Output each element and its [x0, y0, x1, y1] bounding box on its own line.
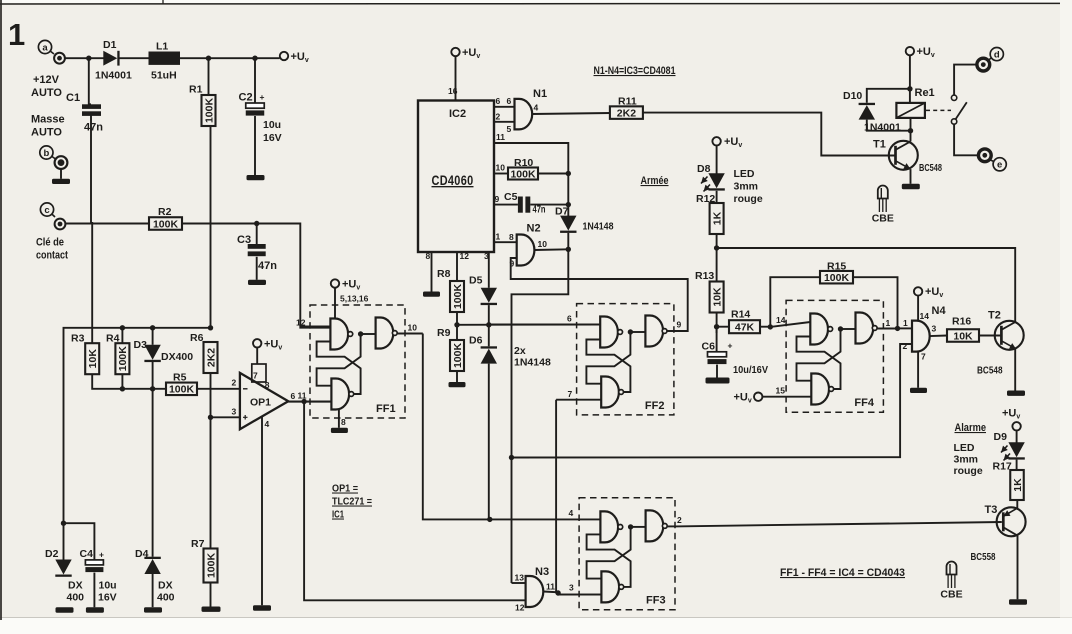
- svg-text:a: a: [42, 42, 48, 53]
- resistor R8: [450, 281, 464, 312]
- svg-text:3: 3: [484, 251, 489, 261]
- wire FF2 pin7 column: [555, 400, 557, 594]
- label pin 6 (N1): [507, 96, 512, 106]
- wire C6 top lead: [716, 327, 718, 352]
- svg-text:N4: N4: [932, 305, 947, 317]
- label pin 8 (N2): [509, 232, 514, 242]
- svg-text:D5: D5: [469, 275, 483, 287]
- diode D3: [144, 345, 160, 362]
- svg-text:10: 10: [496, 163, 506, 173]
- FF1 label: [376, 403, 396, 415]
- svg-text:14: 14: [920, 311, 930, 321]
- svg-text:N1-N4=IC3=CD4081: N1-N4=IC3=CD4081: [594, 65, 676, 77]
- wire R9 ground lead: [456, 371, 458, 382]
- label R13: [695, 270, 714, 282]
- connector b tag: [40, 146, 56, 159]
- svg-text:R11: R11: [618, 96, 637, 108]
- svg-text:D7: D7: [555, 206, 569, 218]
- svg-text:10: 10: [538, 239, 548, 249]
- junction C3 tap: [254, 221, 259, 226]
- label 16V (C2): [263, 132, 282, 144]
- capacitor C6: [708, 352, 727, 364]
- svg-text:R4: R4: [106, 333, 120, 345]
- label BC548 (T1): [919, 162, 942, 174]
- svg-text:1: 1: [886, 318, 891, 328]
- svg-text:2: 2: [903, 341, 908, 351]
- svg-text:10K: 10K: [711, 287, 723, 307]
- label pin 11 (N3): [546, 582, 555, 592]
- label R17: [993, 461, 1012, 473]
- junction D5-D6 node: [486, 322, 491, 327]
- FF4 internal junction: [838, 326, 843, 331]
- label Armee: [641, 175, 669, 187]
- label C6: [702, 341, 716, 353]
- label pin 6 (IC2): [496, 96, 501, 106]
- FF1 lower NAND gate: [331, 379, 353, 410]
- wire IC2 pin2 to N1: [494, 121, 515, 123]
- junction FF4out-N4: [895, 326, 900, 331]
- svg-text:C4: C4: [80, 548, 94, 560]
- junction armee node: [714, 245, 719, 250]
- junction N2out-D7: [566, 247, 571, 252]
- wire C4 branch: [64, 523, 95, 607]
- junction R4 top: [120, 325, 125, 330]
- svg-text:3mm: 3mm: [734, 181, 759, 193]
- svg-text:1: 1: [8, 17, 25, 52]
- OP1 pins 7-8 box: [252, 364, 266, 382]
- junction R4 bottom: [120, 386, 125, 391]
- resistor R13: [710, 282, 724, 313]
- label pin 13 (N3): [515, 573, 525, 583]
- label C1: [66, 92, 80, 104]
- figure frame top rule: [0, 0, 1072, 4]
- label T2: [988, 310, 1001, 322]
- svg-text:3mm: 3mm: [954, 454, 979, 466]
- svg-text:14: 14: [776, 315, 786, 325]
- ground D4: [144, 607, 162, 612]
- wire R12 to node: [716, 234, 718, 282]
- FF1 upper NAND gate: [330, 319, 352, 350]
- wire R3 lower lead: [92, 374, 166, 389]
- label DX 400 (D4): [157, 580, 175, 604]
- label N2: [527, 223, 541, 235]
- FF2 cross-coupling wires: [586, 332, 645, 392]
- FF2 upper NAND gate: [600, 317, 622, 348]
- wire relay coil top: [909, 55, 911, 103]
- diode D2: [55, 560, 71, 577]
- svg-text:11: 11: [546, 582, 555, 592]
- svg-text:D3: D3: [134, 339, 148, 351]
- svg-text:400: 400: [67, 592, 85, 604]
- svg-text:R15: R15: [827, 261, 846, 273]
- FF3 lower NAND gate: [601, 571, 623, 602]
- svg-text:6: 6: [291, 391, 296, 401]
- svg-text:16: 16: [448, 86, 458, 96]
- label R16: [952, 316, 971, 328]
- figure number 1: [8, 17, 25, 52]
- svg-text:8: 8: [341, 417, 346, 427]
- label D1: [103, 39, 117, 51]
- label N1: [533, 88, 547, 100]
- transistor T1: [889, 141, 918, 170]
- FF1 output wire: [395, 333, 423, 335]
- wire contact d: [954, 65, 977, 95]
- label D9: [994, 431, 1008, 443]
- connector b terminal: [55, 156, 68, 169]
- label R2: [158, 206, 172, 218]
- svg-text:OP1: OP1: [250, 397, 271, 409]
- wire D10 cathode link: [867, 89, 910, 103]
- label T1: [873, 139, 886, 151]
- label R14: [731, 309, 750, 321]
- junction R1 tap: [206, 56, 211, 61]
- wire R11 to T1 base: [643, 113, 896, 156]
- junction D3 bottom: [150, 386, 155, 391]
- FF2 lower NAND gate: [601, 377, 623, 408]
- terminal +Uv N4: [914, 286, 943, 299]
- svg-text:Clé de: Clé de: [36, 237, 64, 249]
- wire R17 to T3 emitter: [1016, 500, 1018, 508]
- wire OP1 supply: [256, 348, 258, 365]
- svg-text:R16: R16: [952, 316, 971, 328]
- svg-text:11: 11: [298, 391, 307, 401]
- svg-text:FF1: FF1: [376, 403, 396, 415]
- svg-text:DX: DX: [68, 580, 83, 592]
- wire OP1 pin 4: [261, 417, 263, 606]
- ground N4: [910, 388, 927, 393]
- wire +12V rail: [65, 57, 280, 59]
- junction FF1out/D6/FF3 node: [487, 517, 492, 522]
- wire IC2 pin9: [494, 204, 518, 206]
- svg-text:R2: R2: [158, 206, 172, 218]
- resistor R3: [85, 343, 99, 374]
- svg-text:8: 8: [509, 232, 514, 242]
- wire R6 bottom to opamp: [211, 373, 240, 417]
- label R10: [514, 157, 533, 169]
- wire R14 right lead: [760, 326, 770, 328]
- wire C2 column: [254, 58, 256, 175]
- svg-text:R5: R5: [173, 372, 187, 384]
- junction R10 feedback: [566, 171, 571, 176]
- svg-text:R12: R12: [696, 193, 715, 205]
- svg-text:8: 8: [265, 380, 270, 390]
- svg-text:2: 2: [496, 112, 501, 122]
- wire D10 anode link: [867, 120, 911, 131]
- svg-text:100K: 100K: [452, 343, 464, 369]
- FF3 output wire: [665, 525, 675, 527]
- junction R13-R14-C6: [714, 324, 719, 329]
- wire R5 to opamp minus: [197, 388, 240, 390]
- svg-text:D8: D8: [697, 163, 711, 175]
- wire C3 column: [256, 224, 258, 280]
- label pin 8 (OP1): [265, 380, 270, 390]
- label N4: [932, 305, 947, 317]
- wire OP1 output to N3: [304, 402, 525, 601]
- resistor R4: [115, 343, 129, 374]
- svg-text:Alarme: Alarme: [955, 422, 987, 434]
- label pin 10 (IC2): [496, 163, 506, 173]
- capacitor C1: [82, 104, 101, 116]
- wire D7 to N2 node: [567, 233, 569, 249]
- svg-text:T1: T1: [873, 139, 886, 151]
- flip-flop FF3 dashed box: [579, 498, 675, 610]
- wire D9 to R17: [1016, 460, 1018, 470]
- connector c terminal: [55, 219, 66, 230]
- FF3 upper NAND gate: [600, 511, 622, 542]
- ground T2: [1007, 391, 1025, 396]
- ground R9: [449, 382, 466, 387]
- svg-text:5,13,16: 5,13,16: [340, 294, 369, 304]
- diode D6: [481, 346, 497, 363]
- svg-text:Armée: Armée: [641, 175, 669, 187]
- LED D8: [708, 173, 724, 190]
- wire divider top rail: [64, 328, 211, 523]
- svg-text:5: 5: [507, 124, 512, 134]
- svg-text:11: 11: [496, 132, 505, 142]
- label R7: [191, 538, 205, 550]
- wire N2 pin9 from FF2: [511, 258, 688, 331]
- terminal +Uv D9: [1002, 408, 1021, 431]
- capacitor C3: [248, 244, 266, 256]
- label R11: [618, 96, 637, 108]
- ground D2: [56, 607, 74, 612]
- svg-text:12: 12: [296, 318, 306, 328]
- label pin 14 (N4): [920, 311, 930, 321]
- label pin 12 (N3): [515, 603, 525, 613]
- label pin 2 (OP1): [232, 378, 237, 388]
- wire IC2 pin16: [455, 56, 457, 100]
- FF2 internal junction: [628, 329, 633, 334]
- FF1 R input wire: [288, 401, 331, 403]
- terminal +Uv OP1: [253, 339, 282, 352]
- wire N4 output: [930, 335, 947, 338]
- wire D9 anode: [1016, 431, 1018, 443]
- svg-text:100K: 100K: [510, 168, 536, 180]
- wire R8 to R9: [456, 312, 458, 340]
- label pin 1 (IC2): [496, 232, 501, 242]
- junction D3 top: [150, 325, 155, 330]
- ground FF1: [331, 428, 348, 433]
- svg-text:FF1 - FF4 = IC4 = CD4043: FF1 - FF4 = IC4 = CD4043: [780, 567, 905, 579]
- FF4 R input wire: [762, 396, 811, 398]
- label R3: [71, 333, 85, 345]
- label pin 9 (IC2): [495, 194, 500, 204]
- svg-text:R6: R6: [190, 332, 204, 344]
- label BC558 (T3): [971, 551, 996, 563]
- wire C5 to feedback: [530, 204, 568, 206]
- wire C6 bottom lead: [716, 365, 718, 378]
- label Masse AUTO: [31, 114, 65, 139]
- svg-text:1N4148: 1N4148: [583, 221, 614, 233]
- label pin 12 (IC2): [460, 251, 470, 261]
- svg-text:LED: LED: [734, 168, 755, 180]
- junction C5 feedback: [566, 202, 571, 207]
- svg-text:C5: C5: [504, 191, 518, 203]
- resistor R14: [729, 320, 760, 333]
- svg-text:3: 3: [232, 407, 237, 417]
- label 10u 16V (C4): [98, 580, 117, 604]
- svg-text:CD4060: CD4060: [432, 173, 474, 188]
- label C6 plus: [728, 341, 733, 351]
- svg-text:IC1: IC1: [332, 509, 344, 521]
- package symbol CBE (T3): [940, 562, 962, 601]
- svg-text:15: 15: [776, 386, 786, 396]
- svg-text:FF4: FF4: [854, 397, 874, 409]
- FF2 label: [645, 400, 665, 412]
- switch contact upper: [951, 95, 956, 100]
- wire R15 left lead: [770, 277, 820, 327]
- svg-text:e: e: [997, 160, 1002, 171]
- terminal +Uv main: [280, 51, 309, 64]
- label C2 plus: [260, 92, 265, 102]
- svg-text:100K: 100K: [117, 346, 129, 372]
- wire D3 column: [152, 328, 154, 557]
- svg-text:D6: D6: [469, 335, 483, 347]
- FF2 output NAND gate: [645, 316, 667, 347]
- label R5: [173, 372, 187, 384]
- label pin 7 (OP1): [253, 371, 258, 381]
- svg-text:N1: N1: [533, 88, 547, 100]
- resistor R6: [204, 342, 218, 373]
- svg-text:10u: 10u: [99, 580, 117, 592]
- terminal +Uv IC2: [451, 47, 480, 60]
- label N3: [535, 566, 549, 578]
- label pin 5 (N1): [507, 124, 512, 134]
- svg-text:R7: R7: [191, 538, 205, 550]
- junction C1 tap: [86, 56, 91, 61]
- resistor R7: [204, 549, 218, 583]
- resistor R12: [710, 203, 724, 234]
- label R8: [437, 268, 451, 280]
- wire D8 to R12: [716, 191, 718, 203]
- svg-text:2x: 2x: [514, 345, 526, 357]
- svg-text:C6: C6: [702, 341, 716, 353]
- ground C3: [248, 280, 266, 285]
- wire IC2 pin3 to D5: [488, 252, 490, 287]
- svg-text:1N4001: 1N4001: [95, 70, 132, 82]
- svg-text:6: 6: [496, 96, 501, 106]
- svg-text:contact: contact: [36, 250, 68, 262]
- svg-text:10K: 10K: [87, 349, 99, 369]
- svg-text:R10: R10: [514, 157, 533, 169]
- flip-flop FF4 dashed box: [786, 300, 883, 412]
- svg-text:CBE: CBE: [940, 589, 962, 601]
- label C4 plus: [99, 550, 104, 560]
- FF2 S input wire: [489, 324, 600, 326]
- ground IC2: [423, 292, 440, 297]
- label R6: [190, 332, 204, 344]
- AND gate N3: [526, 576, 544, 607]
- wire IC2 pin11 feedback: [494, 143, 568, 217]
- diode D10: [859, 103, 875, 120]
- ground C2: [247, 175, 265, 180]
- label DX 400 (D2): [67, 580, 85, 604]
- svg-text:13: 13: [515, 573, 525, 583]
- FF2 R input wire: [556, 399, 601, 401]
- label D5: [469, 275, 483, 287]
- svg-text:9: 9: [495, 194, 500, 204]
- svg-text:T3: T3: [985, 504, 998, 516]
- page right edge band: [1060, 0, 1072, 618]
- svg-text:+: +: [728, 341, 733, 351]
- label D10: [843, 90, 862, 102]
- label C5: [504, 191, 518, 203]
- label 2x 1N4148: [514, 345, 551, 369]
- label pin 3 (IC2): [484, 251, 489, 261]
- junction N3 output node: [555, 590, 560, 595]
- label D8: [697, 163, 711, 175]
- wire R4 column: [121, 328, 123, 389]
- FF2 output wire: [665, 331, 668, 333]
- wire contact e: [954, 124, 978, 155]
- label N1-N4=IC3=CD4081: [594, 65, 676, 77]
- FF2 pin number labels: [567, 314, 682, 400]
- svg-text:FF3: FF3: [646, 595, 666, 607]
- label Re1: [915, 87, 935, 99]
- svg-text:16V: 16V: [263, 132, 282, 144]
- svg-text:FF2: FF2: [645, 400, 665, 412]
- junction relay-T1-D10: [908, 128, 913, 133]
- label Alarme: [955, 422, 987, 434]
- wire FF4 out to N4: [898, 327, 913, 329]
- svg-text:R17: R17: [993, 461, 1012, 473]
- label pin 7 (N4): [921, 352, 926, 362]
- label BC548 (T2): [977, 365, 1003, 377]
- FF3 output NAND gate: [646, 510, 668, 541]
- label pin 10 (N2): [538, 239, 548, 249]
- svg-text:BC548: BC548: [919, 162, 942, 174]
- ground C6: [706, 378, 730, 384]
- label R4: [106, 333, 120, 345]
- svg-text:rouge: rouge: [954, 465, 983, 477]
- label C3: [237, 234, 251, 246]
- diode D1: [103, 51, 119, 66]
- svg-text:R9: R9: [437, 327, 451, 339]
- relay Re1: [896, 103, 925, 118]
- ground OP1: [253, 605, 271, 610]
- FF4 cross-coupling wires: [797, 329, 856, 389]
- svg-text:N2: N2: [527, 223, 541, 235]
- label D3: [134, 339, 148, 351]
- FF4 S input wire: [809, 321, 811, 323]
- svg-text:OP1 =: OP1 =: [332, 483, 358, 495]
- wire N1 output to R11: [532, 113, 610, 114]
- label D4: [135, 548, 149, 560]
- svg-text:12: 12: [515, 603, 525, 613]
- label 1N4001 (D1): [95, 70, 132, 82]
- svg-text:Re1: Re1: [915, 87, 935, 99]
- ground C4: [86, 607, 104, 612]
- label pin 3 (N4): [932, 324, 937, 334]
- resistor R5: [166, 383, 197, 396]
- resistor R10: [508, 168, 538, 181]
- wire N3 pin13: [512, 582, 526, 584]
- wire D2 branch: [63, 523, 65, 560]
- label LED 3mm rouge (D9): [954, 442, 983, 477]
- svg-text:D2: D2: [45, 548, 59, 560]
- svg-text:2: 2: [677, 515, 682, 525]
- svg-text:400: 400: [157, 592, 175, 604]
- wire R1 column: [209, 58, 211, 328]
- junction C2 tap: [252, 56, 257, 61]
- wire R14 node to FF4 pin14: [770, 322, 810, 327]
- svg-text:1K: 1K: [1012, 478, 1024, 492]
- capacitor C5: [518, 197, 530, 213]
- resistor R17: [1010, 470, 1024, 500]
- svg-text:1K: 1K: [711, 211, 723, 225]
- wire D8 anode: [716, 146, 718, 174]
- svg-text:C1: C1: [66, 92, 80, 104]
